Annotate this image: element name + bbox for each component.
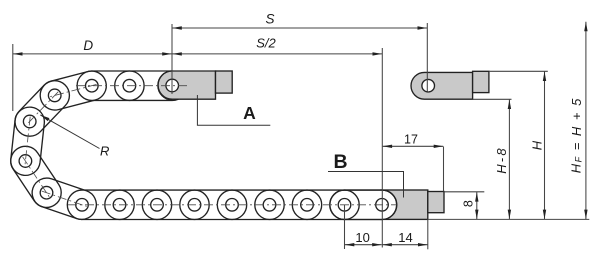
dimension line 17 xyxy=(383,145,444,147)
svg-text:S/2: S/2 xyxy=(256,36,276,51)
chain centerline bend link 1 xyxy=(50,84,97,96)
chain link 8 (stadium outline) xyxy=(67,190,134,219)
bracket B body (fixed-end bracket, behind chain) xyxy=(381,190,428,219)
chain link 7 (stadium outline) xyxy=(32,178,96,219)
chain link 1 (stadium outline) xyxy=(115,71,187,100)
svg-text:S: S xyxy=(265,12,274,27)
long extension line at S/2 right / chain end xyxy=(381,48,383,248)
svg-text:17: 17 xyxy=(404,132,418,146)
dimension line 10 xyxy=(345,244,382,246)
chain link 6 (stadium outline) xyxy=(11,146,62,207)
chain centerline top run xyxy=(76,85,188,87)
chain pin hole 11 xyxy=(226,199,239,212)
chain link 5 (stadium outline) xyxy=(11,107,45,175)
svg-text:14: 14 xyxy=(398,230,412,245)
chain pin hole 9 xyxy=(151,199,164,212)
extension line bracket bottom (H-8) xyxy=(473,98,512,100)
chain link 12 (stadium outline) xyxy=(217,190,284,219)
chain pin hole 4 xyxy=(23,115,36,128)
chain link 11 (stadium outline) xyxy=(180,190,247,219)
leader line for label A xyxy=(197,95,270,125)
dimension line H-8 xyxy=(508,100,510,220)
leader line for label B xyxy=(328,172,404,198)
chain link 10 (stadium outline) xyxy=(142,190,209,219)
chain centerline bottom run xyxy=(68,204,397,206)
chain centerline bend link 3 xyxy=(25,117,30,167)
svg-text:D: D xyxy=(83,38,93,53)
chain pin hole 10 xyxy=(188,199,201,212)
dimension line 8 xyxy=(476,192,478,219)
svg-text:B: B xyxy=(333,151,347,173)
chain link 4 (stadium outline) xyxy=(15,81,69,137)
chain pin hole 13 xyxy=(301,199,314,212)
bracket B step block xyxy=(428,192,444,213)
dimension line D xyxy=(13,53,172,55)
chain pin hole 7 xyxy=(76,199,89,212)
extension line step-top (8-dim) xyxy=(444,191,484,193)
extension line bottom datum xyxy=(428,218,590,220)
chain centerline bend link 2 xyxy=(26,92,58,125)
svg-text:A: A xyxy=(243,103,256,123)
chain last link (white filled over bracket B) xyxy=(330,190,397,219)
extension line 10-dim left xyxy=(344,205,346,249)
chain pin hole 6 xyxy=(40,186,53,199)
detached bracket step block xyxy=(473,71,489,92)
leader line for R with arrow xyxy=(40,115,99,149)
svg-text:10: 10 xyxy=(355,230,369,245)
chain link 3 (stadium outline) xyxy=(40,71,106,110)
extension line 17-dim right xyxy=(443,147,445,192)
chain pin hole 14 xyxy=(338,199,351,212)
chain link 2 (stadium outline) xyxy=(77,71,144,100)
chain link 9 (stadium outline) xyxy=(105,190,172,219)
chain pin hole 5 xyxy=(19,155,32,168)
bracket A step block xyxy=(216,71,233,93)
chain link 13 (stadium outline) xyxy=(255,190,322,219)
extension line through detached bracket hole (S) xyxy=(426,23,428,92)
dimension line S xyxy=(172,27,427,29)
svg-text:H-8: H-8 xyxy=(494,146,509,174)
dimension line HF xyxy=(585,22,587,219)
svg-text:HF = H + 5: HF = H + 5 xyxy=(568,97,583,173)
chain link 15 (stadium outline) xyxy=(330,190,397,219)
extension line bracket B right edge xyxy=(427,220,429,250)
chain pin hole 3 xyxy=(48,89,61,102)
chain end-circle arc visible at bracket A left end xyxy=(158,71,173,100)
chain pin hole 1 xyxy=(123,79,136,92)
chain pin hole 15 xyxy=(376,199,389,212)
bracket A body (moving-end bracket, covers chain) xyxy=(158,71,215,99)
extension line bracket top (H) xyxy=(489,70,548,72)
svg-text:R: R xyxy=(100,144,109,159)
chain pin hole 8 xyxy=(113,199,126,212)
chain pin hole 2 xyxy=(86,79,99,92)
dimension line H xyxy=(544,72,546,220)
chain pin hole 12 xyxy=(263,199,276,212)
chain link 14 (stadium outline) xyxy=(292,190,359,219)
bracket A pivot hole xyxy=(166,79,179,92)
svg-text:8: 8 xyxy=(461,200,475,207)
dimension line 14 xyxy=(382,244,427,246)
dimension line S/2 xyxy=(172,53,382,55)
detached mounting bracket (top right) body xyxy=(411,72,473,99)
svg-text:H: H xyxy=(530,140,545,150)
extension line through bracket A hole (S, S/2, D) xyxy=(171,24,173,94)
chain centerline bend link 4 xyxy=(23,157,50,197)
chain centerline bend link 5 xyxy=(42,191,87,206)
detached bracket hole xyxy=(422,79,435,92)
extension line left edge (D) xyxy=(12,44,14,111)
